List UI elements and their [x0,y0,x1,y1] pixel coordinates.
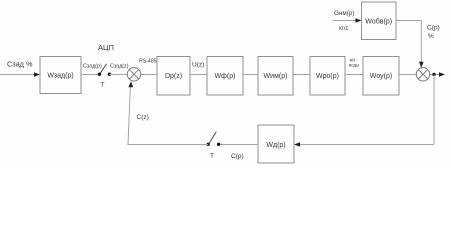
block Wобв(р) disturbance channel [362,2,397,40]
wire Wobv to corner [396,20,421,22]
block Wф(р) [207,57,243,96]
sampler2 left dot [207,143,210,146]
wire sampler1 to summer1 [109,74,127,76]
wire sampler2 to corner [128,144,208,146]
sampler1 switch blade [100,64,106,74]
wire Wim to Wro [293,74,310,76]
svg-text:C(р): C(р) [231,153,244,160]
arrow output [439,72,445,77]
wire corner down to summer2 [420,20,422,64]
wire feedback down [433,75,435,145]
arrow into Wobv [356,18,362,23]
svg-text:Сзад(z): Сзад(z) [110,64,129,70]
svg-text:воды: воды [349,63,359,68]
svg-text:Сзад %: Сзад % [7,60,33,69]
wire Wzad to sampler1 [81,74,100,76]
svg-text:T: T [210,153,214,160]
svg-text:Wобв(р): Wобв(р) [365,18,392,26]
wire feedback bottom [299,144,434,146]
svg-text:U(z): U(z) [192,62,204,69]
svg-text:RS-485: RS-485 [139,59,157,65]
wire setpoint input [0,74,35,76]
svg-text:Wзад(р): Wзад(р) [47,73,73,80]
svg-text:АЦП: АЦП [98,43,114,52]
block Dр(z) controller [157,57,190,96]
svg-text:Wоу(р): Wоу(р) [370,73,392,80]
block Wро(р) [310,57,345,96]
wire feedback up to summer1 [128,87,130,145]
arrow into summer1 bottom [128,81,133,87]
svg-text:Wф(р): Wф(р) [215,73,236,80]
wire disturbance input [333,20,357,22]
block Wзад(р) [40,57,81,94]
sampler1 right dot [108,73,111,76]
svg-text:Gнм(р): Gнм(р) [334,10,354,17]
summing junction 2 [416,68,429,81]
arrow into Wd [294,142,300,147]
svg-text:Сзад(р): Сзад(р) [83,64,102,70]
svg-text:кг/с: кг/с [339,26,348,32]
wire Wf to Wim [243,74,258,76]
sampler1 left dot [98,73,101,76]
block Wим(р) [258,57,293,96]
sampler2 right dot [217,143,220,146]
label и/х воды [349,58,359,68]
wire Wou to summer2 [399,74,416,76]
svg-text:Wро(р): Wро(р) [316,73,339,80]
svg-text:С(р): С(р) [427,24,440,31]
wire summer1 to Dp [141,74,157,76]
arrow into Wzad [34,72,40,77]
wire summer2 to output node [430,74,440,76]
svg-text:%: % [428,33,434,40]
summing junction 1 [127,68,140,81]
svg-text:Dр(z): Dр(z) [165,73,182,80]
wire Wro to Wou [345,74,363,76]
block Wоу(р) plant [363,57,399,96]
svg-text:Wд(p): Wд(p) [266,142,285,149]
block Wд(p) sensor [258,125,294,163]
node output branch [432,73,435,76]
wire Dp to Wf [190,74,207,76]
sampler2 switch blade [209,132,216,144]
wire Wd to sampler2 [219,144,258,146]
svg-text:C(z): C(z) [137,114,149,121]
svg-text:Wим(р): Wим(р) [264,73,288,80]
svg-text:T: T [101,82,105,89]
arrow into summer2 top [419,62,424,68]
